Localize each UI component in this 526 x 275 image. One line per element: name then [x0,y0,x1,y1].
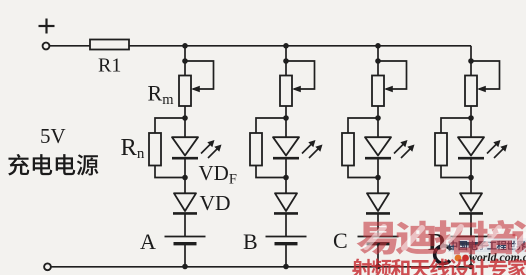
wire branch 3 drop from top rail [377,46,379,76]
node wiper junction branch 3 [375,58,381,64]
wire R_n upper connection branch 3 [348,118,378,133]
node bottom rail junction branch 4 [468,264,474,270]
wire rheostat to parallel node branch 3 [377,106,379,118]
node parallel-bottom branch 4 [468,175,474,181]
node parallel-top branch 2 [283,115,289,121]
svg-text:5V: 5V [40,124,66,148]
wire R_n lower connection branch 3 [348,166,378,178]
wire R_n lower connection branch 1 [155,166,185,178]
battery B negative plate [275,242,298,245]
wire bottom rail [51,266,471,268]
LED VD_F cathode bar branch 3 [365,157,391,160]
wire R_n upper connection branch 2 [256,118,286,133]
node parallel-bottom branch 1 [182,175,188,181]
node bottom rail junction branch 3 [375,264,381,270]
wire diode to battery branch 1 [184,213,186,236]
wire diode anode branch 4 [470,178,472,194]
rheostat R_m branch 1 (potentiometer box) [179,76,191,107]
wire battery to bottom rail branch 3 [377,244,379,267]
node parallel-top branch 1 [182,115,188,121]
wire diode anode branch 1 [184,178,186,194]
wire rheostat wiper loop branch 3 [378,61,407,89]
wire branch 4 drop from top rail [470,46,472,76]
diode VD cathode bar branch 4 [459,212,483,215]
watermark big red text 易迪拓培训 [357,220,526,255]
wire rheostat to parallel node branch 1 [184,106,186,118]
node parallel-bottom branch 3 [375,175,381,181]
wire battery to bottom rail branch 4 [470,244,472,267]
diode VD cathode bar branch 3 [366,212,390,215]
diode VD cathode bar branch 2 [274,212,298,215]
wire rheostat wiper loop branch 4 [471,61,500,89]
LED VD_F cathode bar branch 2 [273,157,299,160]
wiper arrow branch 1 [191,86,200,92]
watermark red text 射频和天线设计专家 [352,258,526,275]
wire top rail [50,45,472,47]
resistor R_n branch 4 [435,133,447,166]
wire R_n upper connection branch 1 [155,118,185,133]
plus terminal label + [39,19,55,34]
LED VD_F branch 2 (triangle) [273,137,299,155]
wire rheostat wiper loop branch 2 [286,61,315,89]
diode VD branch 1 (triangle) [174,193,196,211]
terminal node top-left (open circle) [43,43,50,50]
wire battery to bottom rail branch 1 [184,244,186,267]
wire R_n lower connection branch 4 [441,166,471,178]
wire rheostat to parallel node branch 2 [285,106,287,118]
wire diode to battery branch 3 [377,213,379,236]
svg-text:VD: VD [200,191,231,215]
svg-text:B: B [243,229,258,254]
resistor R_n branch 3 [342,133,354,166]
node wiper junction branch 4 [468,58,474,64]
wire diode anode branch 3 [377,178,379,194]
wire LED anode branch 4 [470,118,472,137]
rheostat R_m branch 3 (potentiometer box) [372,76,384,107]
label 充电电源 (charging power supply) [8,154,98,176]
wire battery to bottom rail branch 2 [285,244,287,267]
LED light arrow 1 branch 1 [201,143,212,154]
node wiper junction branch 2 [283,58,289,64]
LED VD_F cathode bar branch 1 [172,157,198,160]
battery B positive plate [266,236,307,238]
LED VD_F branch 3 (triangle) [365,137,391,155]
wire diode anode branch 2 [285,178,287,194]
resistor R1 [90,40,129,50]
LED VD_F branch 4 (triangle) [458,137,484,155]
watermark logo dot e2 [462,255,469,262]
wire R_n lower connection branch 2 [256,166,286,178]
LED VD_F branch 1 (triangle) [172,137,198,155]
wire LED cathode branch 2 [285,158,287,177]
resistor R_n branch 1 [149,133,161,166]
battery D negative plate [460,242,483,245]
watermark logo dot e1 [455,255,462,262]
LED light arrow 1 branch 2 [302,143,313,154]
wire LED cathode branch 4 [470,158,472,177]
node top rail junction branch 1 [182,43,188,49]
node parallel-top branch 4 [468,115,474,121]
watermark gloss streaks [366,227,526,248]
diode VD branch 2 (triangle) [275,193,297,211]
LED VD_F cathode bar branch 4 [458,157,484,160]
svg-text:R1: R1 [98,55,121,77]
battery D positive plate [451,236,492,238]
resistor R_n branch 2 [250,133,262,166]
LED light arrow 1 branch 4 [487,143,498,154]
svg-text:C: C [333,228,348,253]
wiper arrow branch 3 [384,86,393,92]
LED light arrow 2 branch 1 [208,147,219,158]
wire branch 1 drop from top rail [184,46,186,76]
wire diode to battery branch 4 [470,213,472,236]
wire LED anode branch 2 [285,118,287,137]
watermark logo light tint blocks [448,238,526,252]
watermark logo text 中国电子工程世界 [449,241,526,251]
diode VD cathode bar branch 1 [173,212,197,215]
LED light arrow 1 branch 3 [394,143,405,154]
node parallel-top branch 3 [375,115,381,121]
terminal node bottom-left (open circle) [44,263,51,270]
wire diode to battery branch 2 [285,213,287,236]
node top rail junction branch 3 [375,43,381,49]
LED light arrow 2 branch 3 [401,147,412,158]
wire LED cathode branch 3 [377,158,379,177]
wire LED anode branch 3 [377,118,379,137]
battery C negative plate [367,242,390,245]
node bottom rail junction branch 2 [283,264,289,270]
wire rheostat wiper loop branch 1 [185,61,214,89]
battery A negative plate [174,242,197,245]
node bottom rail junction branch 1 [182,264,188,270]
LED light arrow 2 branch 4 [494,147,505,158]
wire LED cathode branch 1 [184,158,186,177]
wire R_n upper connection branch 4 [441,118,471,133]
diode VD branch 4 (triangle) [460,193,482,211]
wire rheostat to parallel node branch 4 [470,106,472,118]
wire LED anode branch 1 [184,118,186,137]
rheostat R_m branch 2 (potentiometer box) [280,76,292,107]
LED light arrow 2 branch 2 [309,147,320,158]
node parallel-bottom branch 2 [283,175,289,181]
svg-text:A: A [140,229,156,254]
wire branch 2 drop from top rail [285,46,287,76]
rheostat R_m branch 4 (potentiometer box) [465,76,477,107]
wiper arrow branch 2 [292,86,301,92]
diode VD branch 3 (triangle) [367,193,389,211]
wiper arrow branch 4 [477,86,486,92]
battery A positive plate [165,236,206,238]
node wiper junction branch 1 [182,58,188,64]
watermark logo hook glyph [435,246,451,264]
node top rail junction branch 2 [283,43,289,49]
battery C positive plate [358,236,399,238]
